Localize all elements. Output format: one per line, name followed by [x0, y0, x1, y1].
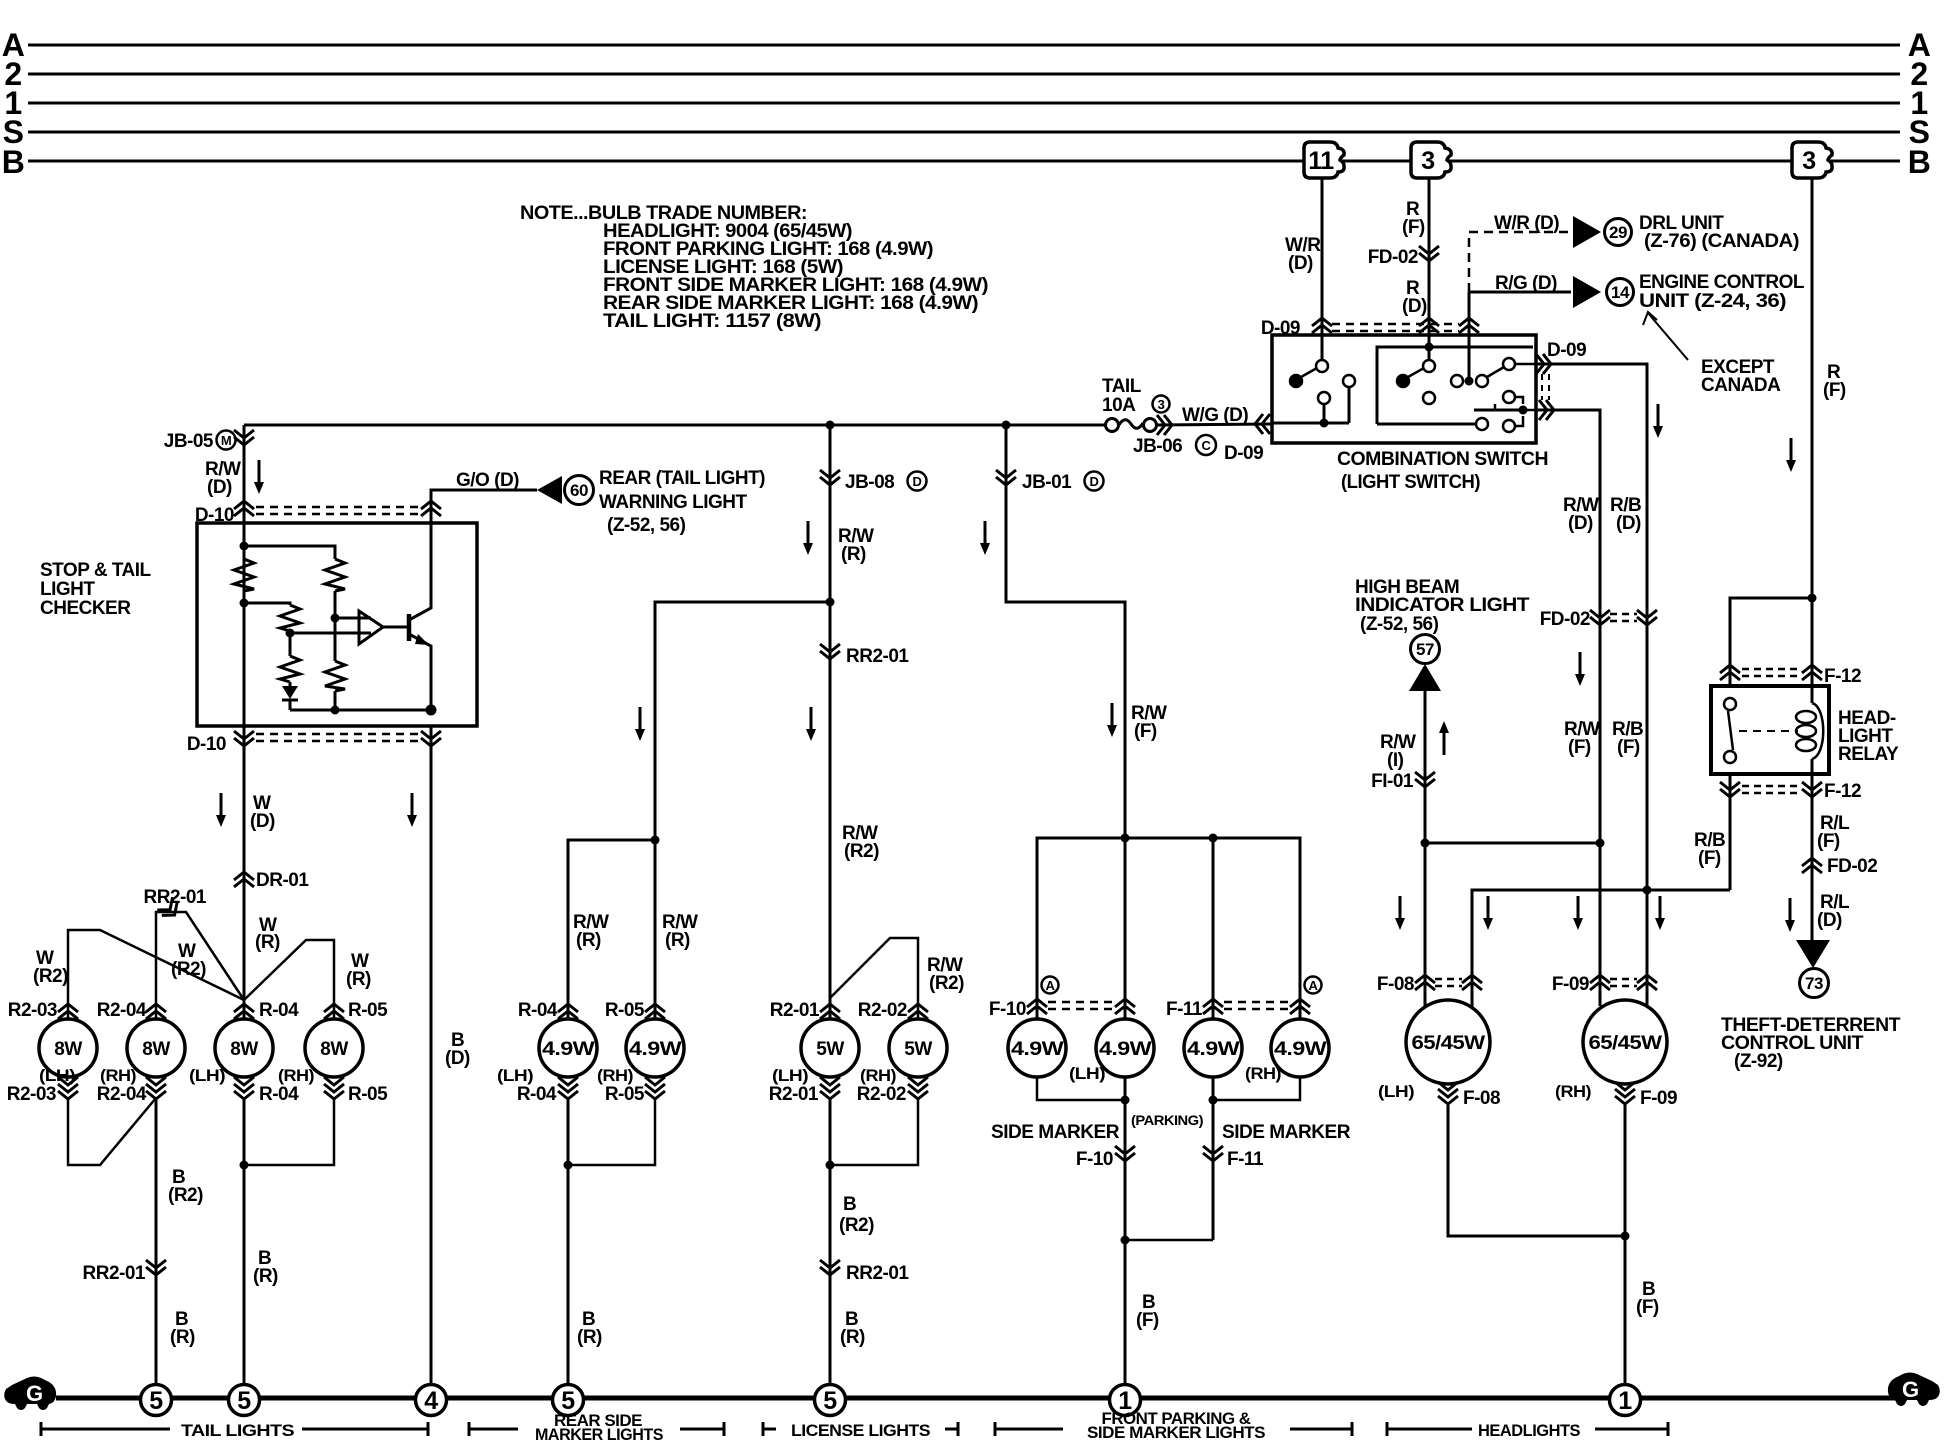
svg-text:(R): (R) [665, 930, 690, 951]
svg-text:MARKER LIGHTS: MARKER LIGHTS [535, 1425, 663, 1440]
svg-text:(Z-52, 56): (Z-52, 56) [1360, 614, 1439, 635]
wire R/B from switch to headlights [1536, 364, 1647, 890]
svg-text:4.9W: 4.9W [1011, 1039, 1064, 1060]
parking bulb 4.9W RH [1184, 1019, 1242, 1077]
DRL unit arrow [1573, 216, 1601, 248]
connector chevron right after fuse [1157, 415, 1172, 435]
junction at JB-08 drop [826, 421, 835, 430]
svg-text:1: 1 [1618, 1387, 1632, 1415]
wire label R/W (R2) [842, 823, 879, 862]
stop and tail light checker box [197, 523, 477, 726]
svg-text:(RH): (RH) [1555, 1082, 1591, 1101]
svg-text:(RH): (RH) [100, 1066, 136, 1085]
wire from tab 11 to switch [1321, 179, 1324, 360]
connector F-09 row [1610, 979, 1637, 986]
svg-text:(LH): (LH) [189, 1066, 225, 1085]
svg-text:INDICATOR LIGHT: INDICATOR LIGHT [1355, 595, 1530, 616]
parking ground wires [1124, 1077, 1127, 1240]
body ground icon right [1888, 1373, 1940, 1407]
svg-text:W/R (D): W/R (D) [1494, 213, 1559, 234]
headlight high beam wires [1424, 843, 1427, 1008]
svg-text:R2-04: R2-04 [97, 1000, 147, 1021]
connector tab 3 on bus B (right) [1792, 142, 1832, 178]
connector tab 11 on bus B [1304, 142, 1344, 178]
svg-text:(D): (D) [250, 811, 275, 832]
svg-text:R2-01: R2-01 [769, 1084, 819, 1105]
flow arrow down [1653, 404, 1663, 438]
fuse label TAIL 10A [1102, 376, 1142, 416]
emitter rail [290, 709, 431, 712]
svg-text:(R2): (R2) [839, 1215, 874, 1236]
connector R2-04 above tail RH outer [146, 1004, 166, 1019]
connector JB-01 [996, 470, 1016, 485]
wire label R/W (R) LH rear marker [573, 912, 609, 951]
svg-text:F-08: F-08 [1377, 974, 1414, 995]
tail light bulb 8W LH inner [215, 1019, 273, 1077]
svg-text:11: 11 [1308, 147, 1334, 175]
svg-text:(D): (D) [1288, 253, 1313, 274]
connector FD-02 [1802, 858, 1822, 873]
wire label B (D) [445, 1030, 470, 1069]
svg-text:SIDE MARKER: SIDE MARKER [1222, 1122, 1351, 1143]
junction at rear marker split [651, 836, 660, 845]
svg-text:STOP & TAIL: STOP & TAIL [40, 560, 152, 581]
flow arrows above headlights [1395, 896, 1405, 930]
dashed branch to DRL unit W/R (D) [1469, 232, 1571, 292]
headlight switch wire from tab 3 [1428, 347, 1431, 360]
wire label R/W (F) [1564, 719, 1600, 758]
svg-text:R2-03: R2-03 [8, 1000, 57, 1021]
svg-text:COMBINATION SWITCH: COMBINATION SWITCH [1337, 449, 1548, 470]
svg-text:FD-02: FD-02 [1368, 247, 1418, 268]
svg-text:DR-01: DR-01 [256, 870, 309, 891]
svg-text:(R): (R) [253, 1266, 278, 1287]
branch to engine control unit R/G (D) [1469, 292, 1571, 332]
svg-text:60: 60 [570, 481, 588, 500]
ground circle 4 checker [416, 1385, 447, 1416]
theft-deterrent unit text [1721, 1015, 1901, 1072]
flow arrow down [1107, 703, 1117, 737]
junction inner pair [240, 1161, 249, 1170]
body ground icon left [4, 1377, 56, 1411]
svg-text:(R): (R) [841, 544, 866, 565]
svg-text:8W: 8W [320, 1039, 348, 1060]
parking bulb 4.9W side RH [1271, 1019, 1329, 1077]
svg-text:65/45W: 65/45W [1412, 1033, 1486, 1054]
connector R-04 below [558, 1077, 578, 1099]
svg-text:4.9W: 4.9W [1099, 1039, 1152, 1060]
svg-text:WARNING LIGHT: WARNING LIGHT [599, 492, 747, 513]
flow arrow below checker right [407, 793, 417, 827]
wire label R/L (D) [1817, 892, 1850, 931]
svg-text:(RH): (RH) [1245, 1064, 1281, 1083]
junction RH marker [1209, 834, 1218, 843]
svg-text:CANADA: CANADA [1701, 375, 1781, 396]
svg-text:F-11: F-11 [1166, 999, 1203, 1020]
wire label R (F) [1402, 199, 1425, 238]
wire from tab 3 to switch [1428, 179, 1431, 360]
connector R2-04 below [146, 1077, 166, 1099]
relay contact [1724, 698, 1736, 763]
except canada text [1701, 357, 1781, 396]
connector tab 3 on bus B (center) [1411, 142, 1451, 178]
wire JB-05 vertical to tail lights [243, 425, 246, 1019]
tail light bulb 8W RH inner [305, 1019, 363, 1077]
svg-text:R-04: R-04 [259, 1000, 299, 1021]
flow arrow down [1575, 652, 1585, 686]
svg-text:(D): (D) [1568, 513, 1593, 534]
svg-text:F-12: F-12 [1824, 781, 1861, 802]
wire label B (R) [577, 1309, 602, 1348]
tail light top wiring LH outer [68, 912, 334, 1019]
junction right pair [1209, 1096, 1218, 1105]
svg-text:(PARKING): (PARKING) [1131, 1112, 1203, 1128]
headlight bulb 65/45W LH [1406, 1000, 1490, 1084]
connector FD-02 row [1610, 614, 1637, 621]
wire relay coil to theft unit [1811, 774, 1814, 940]
svg-text:57: 57 [1416, 640, 1434, 659]
svg-text:B: B [2, 144, 25, 180]
svg-text:5W: 5W [816, 1039, 844, 1060]
headlight switch contacts [1397, 358, 1515, 404]
wire label B (R) [840, 1309, 865, 1348]
ground circle 1 headlights [1610, 1385, 1641, 1416]
resistor R4 [325, 661, 345, 691]
svg-text:R2-04: R2-04 [97, 1084, 147, 1105]
wire label W/R (D) [1285, 235, 1321, 274]
svg-text:(RH): (RH) [597, 1066, 633, 1085]
connector R-04 above rear marker LH [558, 1004, 578, 1019]
parking bulb 4.9W LH [1096, 1019, 1154, 1077]
flow arrow up [1439, 721, 1449, 755]
wire label R/L (F) [1817, 813, 1850, 852]
tail ground wire B (R2) [155, 1098, 158, 1385]
svg-text:(R): (R) [840, 1327, 865, 1348]
svg-text:R/G (D): R/G (D) [1495, 273, 1557, 294]
circled M [217, 431, 236, 450]
svg-text:10A: 10A [1102, 395, 1136, 416]
svg-text:R2-03: R2-03 [7, 1084, 56, 1105]
svg-text:(F): (F) [1136, 1310, 1159, 1331]
connector R2-03 below [58, 1077, 78, 1099]
wire R3 to R5 [289, 631, 292, 656]
junction [564, 1161, 573, 1170]
connector JB-05 [234, 430, 254, 445]
wire comparator upper input [335, 617, 371, 620]
flow arrow down [254, 460, 264, 494]
circled C [1196, 435, 1216, 455]
svg-text:D-10: D-10 [187, 734, 226, 755]
except canada annotation arrow [1643, 312, 1688, 360]
svg-text:(R2): (R2) [844, 841, 879, 862]
transistor collector [409, 523, 431, 620]
bracket front parking and side marker lights [995, 1422, 1352, 1436]
svg-text:(R): (R) [170, 1327, 195, 1348]
wire label B (R2) [839, 1194, 874, 1236]
svg-text:F-08: F-08 [1463, 1088, 1500, 1109]
bus line 1 [28, 102, 1900, 105]
svg-text:4: 4 [424, 1387, 438, 1415]
wire from checker to ground (B (D)) [430, 726, 433, 1385]
connector R2-01 above license LH [820, 1004, 840, 1019]
circled 3 fuse rating [1153, 396, 1170, 413]
front parking top bar [1037, 838, 1300, 1019]
ground circle 1 parking [1110, 1385, 1141, 1416]
svg-text:R2-01: R2-01 [770, 1000, 820, 1021]
flow arrow down license [806, 707, 816, 741]
checker name text [40, 560, 152, 619]
svg-text:4.9W: 4.9W [1187, 1039, 1240, 1060]
wire label R/W (D) [1563, 495, 1599, 534]
wire R2 to comparator input [334, 591, 337, 618]
svg-text:8W: 8W [230, 1039, 258, 1060]
node top junction [244, 546, 335, 559]
rear side marker bulb 4.9W LH [539, 1019, 597, 1077]
tail light bulb 8W LH outer [39, 1019, 97, 1077]
wire relay contact to low beam bar [1729, 774, 1732, 890]
wire node to R3 [244, 603, 290, 605]
license ground wiring [830, 1098, 918, 1165]
connector F-08 below [1438, 1082, 1458, 1104]
svg-text:(F): (F) [1698, 848, 1721, 869]
tail light bulb 8W RH outer [127, 1019, 185, 1077]
wire comparator lower input [290, 632, 371, 635]
high beam junction bar [1425, 842, 1600, 845]
connector D-09 right exits [1536, 354, 1551, 374]
svg-text:(RH): (RH) [860, 1066, 896, 1085]
svg-text:JB-05: JB-05 [164, 431, 214, 452]
wire label R (F) [1823, 362, 1846, 401]
headlight ground wiring [1448, 1103, 1625, 1385]
headlight bulb 65/45W RH [1583, 1000, 1667, 1084]
flow arrow down [980, 521, 990, 555]
svg-text:(D): (D) [207, 477, 232, 498]
flow arrow down [1786, 438, 1796, 472]
svg-text:(F): (F) [1402, 217, 1425, 238]
svg-text:5: 5 [237, 1387, 251, 1415]
svg-text:D-09: D-09 [1224, 443, 1263, 464]
wire label R/W (R) [838, 526, 874, 565]
svg-text:8W: 8W [54, 1039, 82, 1060]
transistor Q1 base bar [407, 614, 412, 641]
connector F-08 row [1435, 979, 1462, 986]
svg-text:B: B [843, 1194, 856, 1215]
connector F-12 top row [1742, 669, 1800, 676]
svg-text:TAIL LIGHTS: TAIL LIGHTS [181, 1421, 294, 1440]
svg-text:3: 3 [1802, 147, 1815, 175]
svg-text:F-09: F-09 [1640, 1088, 1677, 1109]
svg-text:(LH): (LH) [1069, 1064, 1105, 1083]
svg-text:F-10: F-10 [1076, 1149, 1113, 1170]
svg-text:(F): (F) [1823, 380, 1846, 401]
wire label W (D) [250, 793, 275, 832]
relay branch bar [1730, 598, 1812, 686]
svg-text:RELAY: RELAY [1838, 744, 1899, 765]
svg-text:G: G [26, 1381, 43, 1406]
parking lower wiring left pair [1037, 1077, 1300, 1100]
rear side marker bulb 4.9W RH [626, 1019, 684, 1077]
connector F-12 bottom row [1742, 786, 1800, 793]
wire label R/W (I) [1380, 732, 1416, 771]
bus line 2 [28, 73, 1900, 76]
resistor R5 [280, 656, 300, 682]
connector R2-01 below [820, 1077, 840, 1099]
connector chevron at switch D-09 [1255, 414, 1270, 434]
svg-text:R-04: R-04 [259, 1084, 299, 1105]
svg-text:R-04: R-04 [517, 1084, 557, 1105]
DRL unit text [1639, 213, 1799, 252]
svg-text:ENGINE CONTROL: ENGINE CONTROL [1639, 272, 1805, 293]
circled A right [1305, 977, 1322, 994]
headlight relay box [1711, 686, 1829, 774]
svg-text:3: 3 [1421, 147, 1434, 175]
svg-text:(D): (D) [1817, 910, 1842, 931]
passing switch [1474, 391, 1523, 432]
svg-text:R-05: R-05 [605, 1084, 645, 1105]
connector F-10 row [1048, 1002, 1114, 1009]
relay name text [1838, 708, 1899, 765]
wire from right tab 3 down [1811, 179, 1814, 686]
svg-text:(Z-52, 56): (Z-52, 56) [607, 515, 686, 536]
wire label B (R2) [168, 1167, 203, 1206]
svg-text:5: 5 [149, 1387, 163, 1415]
svg-text:G/O (D): G/O (D) [456, 470, 519, 491]
svg-text:R-04: R-04 [518, 1000, 558, 1021]
svg-text:(LH): (LH) [497, 1066, 533, 1085]
svg-text:R2-02: R2-02 [858, 1000, 907, 1021]
bus line S [28, 131, 1900, 134]
flow arrow down [803, 521, 813, 555]
relay coil [1796, 686, 1823, 774]
tail ground wire B (R) [243, 1098, 246, 1385]
passing output wire [1523, 409, 1536, 412]
svg-text:R-05: R-05 [348, 1084, 388, 1105]
connector JB-08 [820, 470, 840, 485]
wire label B (R) outer [170, 1309, 195, 1348]
svg-text:SIDE MARKER LIGHTS: SIDE MARKER LIGHTS [1087, 1423, 1265, 1440]
flow arrow down rear marker [635, 707, 645, 741]
wire R/W from switch to headlights [1536, 410, 1600, 843]
svg-text:W/G (D): W/G (D) [1182, 405, 1248, 426]
connector DR-01 on tail feed [234, 872, 254, 887]
ground circle 5 rear marker [553, 1385, 584, 1416]
wire label R/W (D) [205, 459, 241, 498]
svg-text:A: A [1309, 978, 1319, 993]
connector RR2-01 lower license [820, 1260, 840, 1275]
wire label R/W (R2) license RH [927, 955, 964, 994]
connector FI-01 [1415, 772, 1435, 787]
svg-text:(Z-92): (Z-92) [1734, 1051, 1783, 1072]
checker internal wiring [234, 523, 431, 710]
tail light bottom wiring inner pair [244, 1098, 334, 1165]
svg-text:(R2): (R2) [33, 966, 68, 987]
wire to high beam indicator [1424, 691, 1427, 843]
svg-text:4.9W: 4.9W [629, 1039, 682, 1060]
svg-text:LIGHT: LIGHT [40, 579, 95, 600]
svg-text:D: D [1090, 474, 1099, 489]
svg-text:REAR (TAIL LIGHT): REAR (TAIL LIGHT) [599, 468, 765, 489]
high beam indicator text [1355, 577, 1530, 635]
svg-text:LICENSE LIGHTS: LICENSE LIGHTS [791, 1421, 930, 1440]
wire into switch from D-09 [1468, 332, 1471, 381]
svg-text:F-09: F-09 [1552, 974, 1589, 995]
tail switch contacts [1290, 360, 1355, 404]
rear marker ground wiring [568, 1098, 655, 1165]
svg-text:R2-02: R2-02 [857, 1084, 906, 1105]
svg-text:5W: 5W [904, 1039, 932, 1060]
svg-text:(LH): (LH) [772, 1066, 808, 1085]
circled 14 [1607, 279, 1634, 306]
transistor emitter [409, 634, 431, 710]
connector R-05 below [324, 1077, 344, 1099]
note block: bulb trade numbers [520, 203, 988, 332]
diode D1 [289, 682, 292, 686]
junction dots inside checker [240, 542, 249, 551]
bus line A [28, 44, 1900, 47]
ground circle 5 license [815, 1385, 846, 1416]
wire JB-08 vertical (tail feed to rear markers / license) [829, 425, 832, 1019]
wire label B (R) inner [253, 1248, 278, 1287]
wire label R/W (R) RH rear marker [662, 912, 698, 951]
wire branch to rear side markers [568, 602, 830, 1019]
svg-text:(LIGHT SWITCH): (LIGHT SWITCH) [1341, 472, 1480, 493]
svg-text:JB-06: JB-06 [1133, 436, 1182, 457]
svg-text:M: M [221, 433, 231, 448]
connector RR2-01 on license feed [820, 644, 840, 659]
svg-text:(R): (R) [346, 969, 371, 990]
transistor emitter arrowhead [415, 634, 429, 645]
wire label W (R) RH [346, 951, 371, 990]
connector R-05 above rear marker RH [645, 1004, 665, 1019]
svg-text:(R2): (R2) [171, 959, 206, 980]
wire R4 top [334, 618, 337, 661]
ECU text [1639, 272, 1805, 312]
svg-text:R-05: R-05 [605, 1000, 645, 1021]
svg-text:(R2): (R2) [168, 1185, 203, 1206]
svg-text:UNIT (Z-24, 36): UNIT (Z-24, 36) [1639, 291, 1786, 312]
connector RR2-01 diagonal [157, 897, 182, 921]
svg-text:FD-02: FD-02 [1540, 609, 1590, 630]
circled D [1085, 472, 1104, 491]
high beam indicator arrow [1409, 664, 1441, 691]
wire label W (R) mid [255, 915, 280, 953]
svg-text:(R): (R) [255, 932, 280, 953]
connector FD-02 [1419, 246, 1439, 261]
ECU arrow [1573, 276, 1601, 308]
svg-text:C: C [1202, 438, 1212, 453]
svg-text:29: 29 [1609, 223, 1627, 242]
svg-text:14: 14 [1611, 283, 1630, 302]
wire label R/W (F) [1131, 703, 1167, 742]
svg-text:RR2-01: RR2-01 [846, 1263, 909, 1284]
wire label R/B (D) [1610, 495, 1641, 534]
tail light bottom wiring outer pair [68, 1098, 156, 1165]
license light bulb 5W LH [801, 1019, 859, 1077]
svg-text:F-11: F-11 [1227, 1149, 1264, 1170]
circled A left [1042, 977, 1059, 994]
svg-text:(R2): (R2) [929, 973, 964, 994]
wire label B (F) [1136, 1292, 1159, 1331]
switch inner box [1377, 347, 1533, 424]
junction parking feed [1121, 834, 1130, 843]
svg-text:5: 5 [823, 1387, 837, 1415]
fuse TAIL 10A [1106, 419, 1273, 432]
main feed wire from JB-05 to TAIL fuse [244, 424, 1105, 427]
svg-text:73: 73 [1805, 974, 1823, 993]
connector F-09 below [1615, 1082, 1635, 1104]
bracket headlights [1387, 1422, 1668, 1436]
connector R-05 above tail RH inner [324, 1004, 344, 1019]
